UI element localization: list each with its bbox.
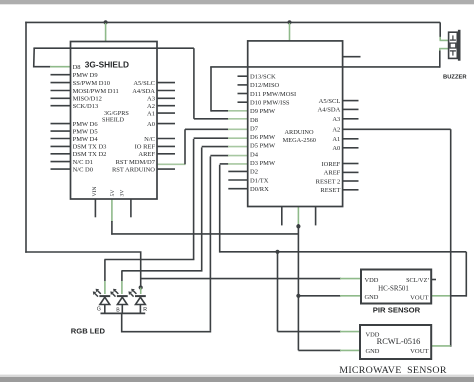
svg-text:A2: A2 bbox=[332, 127, 340, 134]
pins arduino bottom stubs bbox=[282, 207, 316, 226]
svg-text:RCWL-0516: RCWL-0516 bbox=[377, 337, 421, 346]
label MICROWAVE SENSOR bbox=[339, 365, 447, 376]
wire PIR VOUT riser bbox=[431, 252, 467, 297]
svg-text:SHEILD: SHEILD bbox=[102, 117, 125, 124]
svg-text:A1: A1 bbox=[332, 136, 340, 143]
svg-text:D8: D8 bbox=[250, 117, 258, 124]
wire D7 to arduino bbox=[185, 128, 247, 130]
labels MW pins bbox=[366, 332, 429, 356]
svg-text:5V: 5V bbox=[110, 190, 116, 197]
svg-text:A4/SDA: A4/SDA bbox=[318, 107, 341, 114]
svg-text:A3: A3 bbox=[332, 116, 340, 123]
svg-text:N/C: N/C bbox=[144, 136, 155, 143]
top gray bar bbox=[0, 0, 474, 4]
svg-text:3V: 3V bbox=[120, 190, 126, 197]
labels shield bottom rotated bbox=[92, 187, 126, 197]
wire green drop to arduino top pin bbox=[289, 23, 291, 41]
bottom gray bar bbox=[0, 375, 474, 382]
svg-text:PMW D4: PMW D4 bbox=[73, 136, 99, 143]
svg-text:A5/SCL: A5/SCL bbox=[319, 98, 341, 105]
labels PIR pins bbox=[365, 277, 430, 301]
svg-text:DSM TX D2: DSM TX D2 bbox=[73, 151, 107, 158]
svg-text:MEGA-2560: MEGA-2560 bbox=[283, 137, 316, 144]
svg-text:AREF: AREF bbox=[138, 151, 155, 158]
svg-text:RGB LED: RGB LED bbox=[71, 326, 106, 335]
node junction arduino VCC bbox=[287, 20, 291, 24]
labels shield right pins bbox=[112, 80, 156, 173]
svg-text:A4/SDA: A4/SDA bbox=[132, 88, 155, 95]
wire VCC bottom run to R LED bbox=[25, 251, 141, 253]
svg-text:AREF: AREF bbox=[324, 170, 341, 177]
svg-text:SS/PWM D10: SS/PWM D10 bbox=[73, 80, 110, 87]
labels arduino right pins bbox=[316, 98, 341, 194]
wire MW VDD drop bbox=[278, 252, 361, 332]
svg-text:ARDUINO: ARDUINO bbox=[284, 129, 313, 136]
svg-text:D5 PMW: D5 PMW bbox=[250, 143, 276, 150]
wire A2 run bbox=[343, 129, 451, 346]
wire shield GND drop bbox=[111, 199, 298, 235]
svg-text:GND: GND bbox=[365, 294, 379, 301]
svg-text:GND: GND bbox=[366, 348, 380, 355]
svg-text:D9 PMW: D9 PMW bbox=[250, 108, 276, 115]
svg-text:3G-SHIELD: 3G-SHIELD bbox=[85, 59, 129, 69]
wire B LED feed bbox=[121, 271, 202, 281]
wire D8 crossing shield box bbox=[33, 47, 194, 49]
wire green G LED pin bbox=[104, 281, 106, 294]
svg-text:A3: A3 bbox=[147, 96, 155, 103]
node junction arduino GND bbox=[296, 224, 300, 228]
svg-text:IOREF: IOREF bbox=[322, 161, 341, 168]
label 3G-SHIELD title bbox=[85, 59, 129, 69]
svg-text:R: R bbox=[143, 307, 147, 313]
node junction MW VDD branch bbox=[275, 250, 279, 254]
led G bbox=[93, 289, 110, 314]
svg-text:A2: A2 bbox=[147, 103, 155, 110]
svg-text:RESET 2: RESET 2 bbox=[316, 178, 341, 185]
svg-text:D0/RX: D0/RX bbox=[250, 186, 269, 193]
wire D8 vertical drop bbox=[193, 48, 195, 119]
pins arduino right stubs bbox=[343, 57, 361, 190]
pins shield bottom stubs bbox=[95, 199, 130, 217]
wire LED common return bbox=[122, 313, 212, 332]
svg-text:D3 PMW: D3 PMW bbox=[250, 160, 276, 167]
svg-text:D7: D7 bbox=[250, 125, 259, 132]
label ARDUINO MEGA-2560 bbox=[283, 129, 316, 144]
wire arduino GND vertical bbox=[297, 224, 299, 350]
led R bbox=[128, 289, 147, 314]
svg-text:RST MDM/D7: RST MDM/D7 bbox=[116, 159, 156, 166]
wire VCC left rail bbox=[25, 22, 27, 253]
svg-text:RESET: RESET bbox=[320, 187, 340, 194]
svg-text:D12/MISO: D12/MISO bbox=[250, 82, 280, 89]
wire PIR VDD run bbox=[141, 278, 361, 280]
svg-text:VOUT: VOUT bbox=[410, 294, 428, 301]
svg-text:PIR SENSOR: PIR SENSOR bbox=[373, 306, 421, 315]
svg-text:MOSI/PWM D11: MOSI/PWM D11 bbox=[73, 88, 119, 95]
wire PIR GND branch bbox=[298, 295, 361, 297]
wire shield RST MDM/D7 green bbox=[157, 163, 185, 165]
wire VCC drop to R LED column bbox=[140, 252, 142, 288]
wire D3 run right bbox=[220, 251, 467, 253]
svg-text:MICROWAVE SENSOR: MICROWAVE SENSOR bbox=[339, 365, 447, 376]
wire green drop to 3G-shield top pin bbox=[105, 23, 107, 42]
op arduino U2 box bbox=[248, 41, 343, 207]
svg-text:N/C D1: N/C D1 bbox=[73, 159, 93, 166]
svg-text:D2: D2 bbox=[250, 169, 258, 176]
wire D7 riser bbox=[184, 129, 186, 164]
svg-text:N/C D0: N/C D0 bbox=[73, 166, 93, 173]
svg-text:PMW D6: PMW D6 bbox=[73, 121, 99, 128]
op PIR HC-SR501 box bbox=[361, 270, 431, 304]
wire VCC to buzzer top bbox=[440, 22, 449, 40]
wire D5 to arduino bbox=[202, 147, 248, 271]
svg-text:DSM TX D3: DSM TX D3 bbox=[73, 144, 107, 151]
wire VCC top rail bbox=[25, 21, 440, 23]
svg-text:SCL/VZ’: SCL/VZ’ bbox=[406, 277, 429, 284]
wire D6 to arduino bbox=[194, 138, 248, 259]
svg-text:A0: A0 bbox=[147, 121, 155, 128]
svg-text:VIN: VIN bbox=[92, 187, 98, 197]
pins shield left stubs bbox=[51, 75, 71, 169]
buzzer BZ1 bbox=[449, 30, 461, 61]
svg-text:IO REF: IO REF bbox=[135, 144, 156, 151]
svg-text:RST ARDUINO: RST ARDUINO bbox=[112, 166, 155, 173]
pins arduino left stubs bbox=[228, 76, 247, 189]
svg-text:BUZZER: BUZZER bbox=[443, 74, 467, 80]
labels shield left pins bbox=[73, 64, 119, 174]
wire arduino D9 to buzzer bbox=[210, 48, 448, 111]
op 3G-shield U1 box bbox=[71, 42, 158, 200]
svg-text:PMW D9: PMW D9 bbox=[73, 72, 98, 79]
svg-text:D11 PMW/MOSI: D11 PMW/MOSI bbox=[250, 91, 296, 98]
svg-text:D10 PMW/ISS: D10 PMW/ISS bbox=[250, 100, 290, 107]
label 3G/GPRS SHEILD bbox=[102, 110, 129, 124]
svg-text:D8: D8 bbox=[73, 64, 81, 71]
label PIR SENSOR bbox=[373, 306, 421, 315]
wire MW GND branch bbox=[298, 349, 360, 351]
label BUZZER bbox=[443, 74, 467, 80]
svg-text:PMW D5: PMW D5 bbox=[73, 128, 98, 135]
wire LED cathode bus bbox=[101, 312, 146, 314]
label RGB LED bbox=[71, 326, 106, 335]
svg-text:SCK/D13: SCK/D13 bbox=[73, 103, 99, 110]
svg-text:VDD: VDD bbox=[365, 277, 379, 284]
wire D3 to arduino bbox=[220, 164, 248, 253]
wire shield D8 loop bbox=[34, 48, 71, 67]
svg-text:D6 PMW: D6 PMW bbox=[250, 134, 276, 141]
svg-text:VOUT: VOUT bbox=[410, 348, 428, 355]
wire green B LED pin bbox=[121, 281, 123, 294]
svg-text:G: G bbox=[97, 306, 101, 312]
node junction shield VCC bbox=[104, 20, 108, 24]
wire green D9 pin tail bbox=[228, 110, 247, 112]
op MW RCWL-0516 box bbox=[360, 325, 431, 359]
svg-text:HC-SR501: HC-SR501 bbox=[378, 286, 409, 293]
wire arduino GND pin bbox=[297, 207, 299, 225]
node junction R LED bbox=[139, 285, 143, 289]
svg-text:D1/TX: D1/TX bbox=[250, 177, 269, 184]
svg-text:MISO/D12: MISO/D12 bbox=[73, 96, 102, 103]
svg-text:B: B bbox=[116, 307, 120, 313]
pin PIR SCL stub bbox=[431, 279, 436, 281]
svg-text:D4: D4 bbox=[250, 151, 259, 158]
wire D8 to arduino bbox=[194, 118, 247, 120]
svg-text:A1: A1 bbox=[147, 110, 155, 117]
pins shield right stubs bbox=[157, 83, 175, 170]
labels arduino left pins bbox=[250, 74, 296, 194]
wire green R LED pin bbox=[140, 288, 142, 295]
wire G LED feed bbox=[104, 260, 194, 282]
svg-text:A0: A0 bbox=[332, 145, 340, 152]
node junction PIR GND bbox=[296, 294, 300, 298]
led B bbox=[110, 289, 127, 314]
svg-text:A5/SLC: A5/SLC bbox=[133, 80, 155, 87]
wire D4 to arduino bbox=[210, 156, 247, 331]
svg-text:D13/SCK: D13/SCK bbox=[250, 74, 276, 81]
